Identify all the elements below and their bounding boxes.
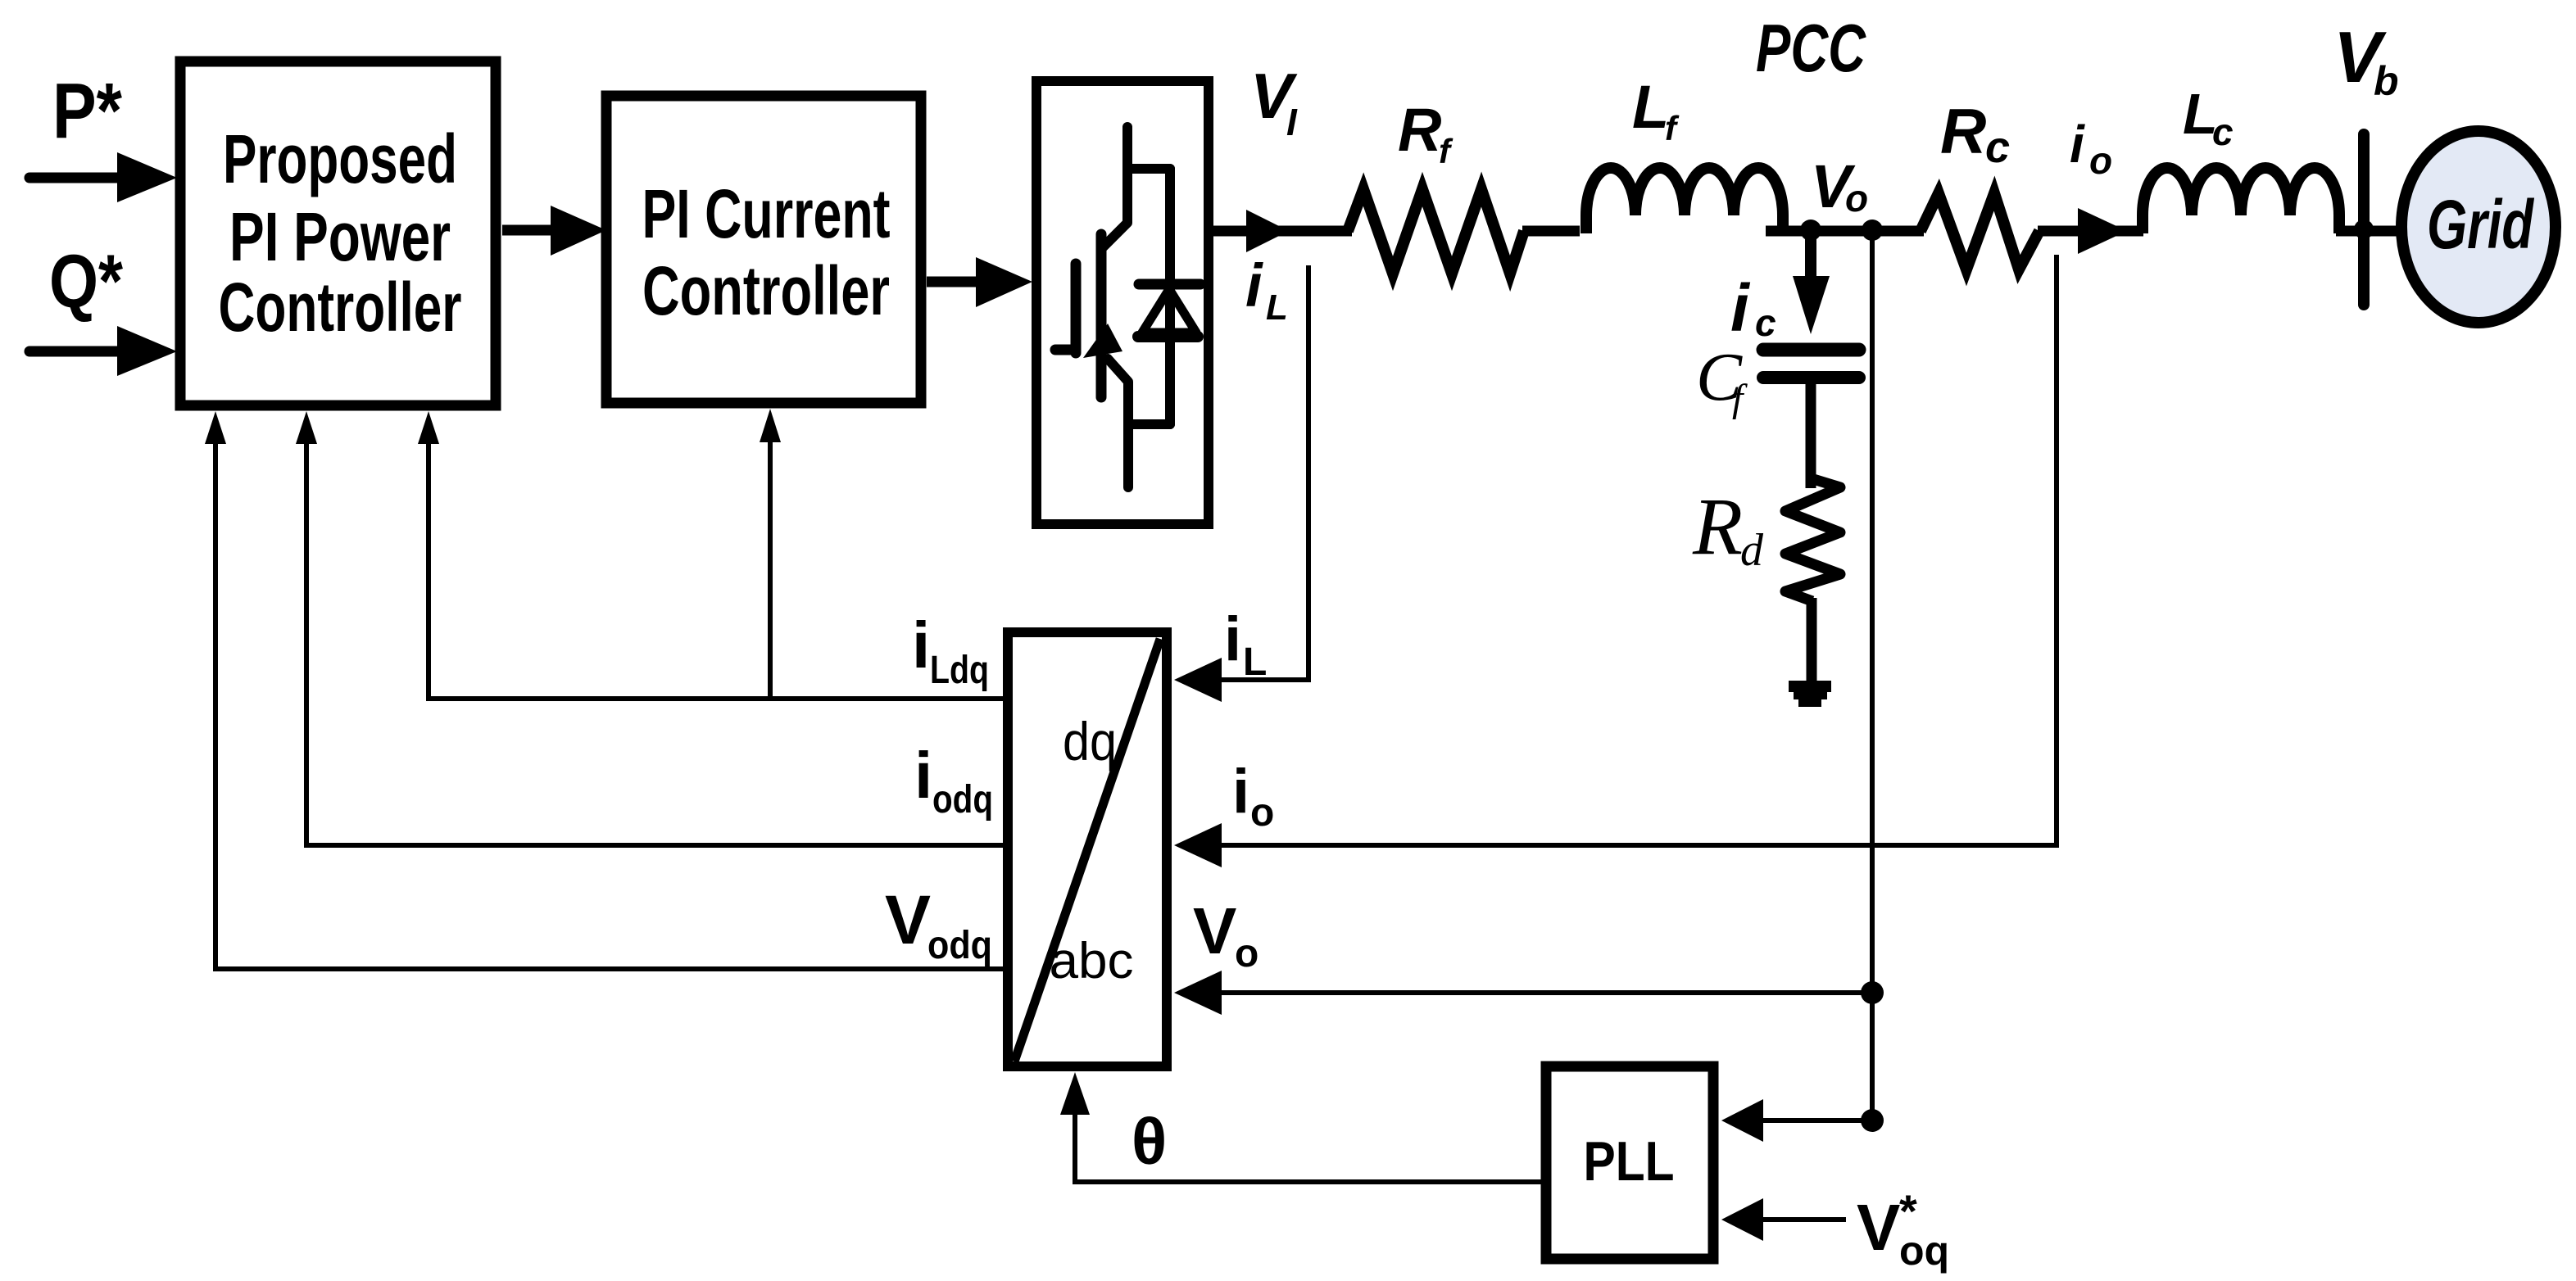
- block PI Current Controller: [606, 96, 921, 403]
- svg-text:V: V: [1857, 1191, 1900, 1264]
- arrowhead inverter output: [1246, 210, 1289, 252]
- wire Vodq output: [215, 966, 1008, 971]
- wire iodq riser: [304, 442, 309, 848]
- svg-text:L: L: [1266, 287, 1288, 328]
- transistor IGBT collector lead: [1102, 127, 1127, 248]
- transistor IGBT emitter arrow: [1083, 324, 1122, 358]
- label iLdq: [912, 609, 989, 692]
- wire iL measurement tap vertical: [1306, 265, 1311, 682]
- label Vo right of dq: [1193, 894, 1259, 975]
- node Grid circle: [2401, 131, 2556, 323]
- svg-text:c: c: [1985, 123, 2010, 172]
- svg-text:R: R: [1692, 481, 1743, 572]
- svg-text:L: L: [1243, 640, 1267, 684]
- svg-text:Ldq: Ldq: [930, 649, 989, 692]
- wire IGBT bottom connector: [1128, 419, 1170, 429]
- node PCC junction dot: [1862, 220, 1883, 241]
- arrowhead into current controller: [551, 206, 606, 256]
- svg-text:PI Current: PI Current: [642, 175, 891, 252]
- block Proposed PI Power Controller: [180, 61, 496, 405]
- wire current controller to inverter: [927, 277, 990, 287]
- inductor Lf: [1586, 168, 1783, 233]
- label Rf: [1398, 96, 1454, 170]
- wire IGBT top connector: [1127, 164, 1170, 174]
- arrowhead io into dq: [1174, 823, 1222, 867]
- label Vodq: [885, 881, 992, 967]
- svg-text:i: i: [912, 609, 930, 681]
- arrowhead Vo into PLL: [1721, 1099, 1763, 1142]
- wire Vodq riser: [213, 442, 218, 971]
- svg-text:i: i: [1245, 251, 1263, 319]
- label io top: [2070, 115, 2112, 182]
- svg-text:odq: odq: [927, 924, 992, 967]
- diode D1 triangle: [1142, 289, 1196, 333]
- wire iLdq output: [429, 696, 1008, 701]
- capacitor Cf bottom plate: [1763, 371, 1859, 384]
- svg-text:i: i: [914, 739, 932, 812]
- svg-text:R: R: [1398, 96, 1441, 164]
- label Vo top: [1811, 152, 1868, 220]
- svg-text:PI Power: PI Power: [229, 198, 451, 275]
- wire io measurement tap vertical: [2054, 255, 2059, 848]
- svg-text:odq: odq: [932, 778, 993, 822]
- svg-text:i: i: [1232, 757, 1249, 826]
- svg-text:PLL: PLL: [1584, 1130, 1675, 1193]
- arrowhead Voq* into PLL: [1721, 1198, 1763, 1241]
- transistor IGBT gate bar: [1071, 264, 1082, 353]
- diode D1 cathode bar: [1139, 279, 1200, 290]
- svg-text:θ: θ: [1132, 1105, 1167, 1178]
- wire theta from PLL: [1075, 1098, 1541, 1182]
- inductor Lc: [2143, 168, 2339, 233]
- label ic: [1730, 271, 1776, 346]
- wire Lc to grid: [2336, 226, 2404, 237]
- wire Rc to Lc with io arrow: [2038, 226, 2143, 237]
- svg-text:PCC: PCC: [1756, 10, 1866, 86]
- wire io into dq block: [1204, 843, 2057, 848]
- arrowhead Vo into dq: [1174, 971, 1222, 1015]
- wire Voq* into PLL: [1762, 1217, 1846, 1222]
- svg-text:c: c: [2212, 111, 2234, 153]
- svg-text:o: o: [1845, 177, 1868, 220]
- label Cf: [1696, 339, 1748, 420]
- svg-text:R: R: [1940, 95, 1986, 167]
- node Vb bus bar: [2358, 134, 2370, 305]
- svg-text:P*: P*: [52, 67, 123, 155]
- label Lc: [2183, 82, 2234, 153]
- svg-text:i: i: [1224, 604, 1241, 674]
- label Vb: [2333, 16, 2399, 104]
- label Voq* reference: [1857, 1185, 1949, 1274]
- label iL right of dq: [1224, 604, 1267, 684]
- label io right of dq: [1232, 757, 1274, 835]
- wire Q* input: [29, 346, 123, 357]
- diode D1 base bar: [1138, 331, 1198, 342]
- resistor Rd: [1785, 478, 1840, 601]
- label Lf: [1632, 73, 1680, 147]
- resistor Rf: [1348, 189, 1524, 274]
- svg-text:abc: abc: [1050, 933, 1134, 989]
- transistor IGBT gate lead: [1055, 345, 1076, 355]
- arrowhead Q* input: [117, 326, 177, 376]
- arrowhead iodq into power controller: [296, 411, 317, 444]
- arrowhead ic downward: [1793, 276, 1830, 334]
- wire iodq output: [306, 843, 1008, 848]
- svg-text:b: b: [2374, 58, 2399, 104]
- wire Cf to Rd: [1806, 384, 1816, 488]
- block PLL: [1546, 1066, 1713, 1259]
- wire power controller to current controller: [502, 225, 560, 236]
- svg-text:o: o: [1235, 932, 1259, 975]
- arrowhead into current controller bottom: [760, 409, 781, 442]
- arrowhead io: [2078, 208, 2127, 254]
- svg-text:o: o: [1250, 791, 1274, 835]
- wire iLdq riser to power controller: [426, 442, 431, 701]
- svg-text:L: L: [1632, 73, 1669, 141]
- wire Rf to Lf: [1522, 226, 1580, 237]
- wire riser to current controller: [768, 442, 773, 699]
- svg-text:Controller: Controller: [642, 252, 890, 329]
- arrowhead P* input: [117, 152, 177, 202]
- node PLL input junction dot: [1861, 1109, 1884, 1132]
- svg-text:I: I: [1286, 101, 1298, 143]
- transistor IGBT body bar: [1096, 234, 1107, 397]
- wire Vo measurement vertical: [1870, 238, 1875, 1120]
- svg-text:V: V: [1193, 894, 1236, 967]
- arrowhead iLdq into power controller: [418, 411, 439, 444]
- block inverter box: [1036, 81, 1209, 524]
- label VI: [1250, 60, 1298, 143]
- wire iL into dq block: [1204, 677, 1308, 682]
- node Vo junction dot: [1800, 220, 1821, 241]
- label Rc: [1940, 95, 2010, 172]
- svg-text:Grid: Grid: [2427, 186, 2534, 263]
- label iL near inverter: [1245, 251, 1288, 328]
- ground symbol: [1789, 681, 1831, 692]
- wire ic branch: [1805, 236, 1816, 287]
- wire inverter output VI: [1213, 226, 1352, 237]
- svg-text:V: V: [885, 881, 931, 958]
- capacitor Cf top plate: [1763, 343, 1859, 357]
- arrowhead theta into dq: [1060, 1072, 1090, 1115]
- wire P* input: [29, 173, 123, 183]
- arrowhead iL into dq: [1174, 658, 1222, 702]
- wire Rd to ground: [1807, 598, 1817, 685]
- svg-text:i: i: [1730, 271, 1751, 346]
- label iodq: [914, 739, 993, 822]
- svg-text:d: d: [1740, 525, 1764, 576]
- wire Lf to PCC node: [1766, 226, 1924, 237]
- diode D1 vertical lead: [1165, 169, 1175, 424]
- block dq/abc transform: [1008, 632, 1167, 1066]
- svg-text:oq: oq: [1899, 1228, 1949, 1274]
- resistor Rc: [1921, 193, 2039, 269]
- arrowhead Vodq into power controller: [205, 411, 226, 444]
- node Vo feedback junction dot: [1861, 981, 1884, 1004]
- svg-text:c: c: [1755, 301, 1776, 344]
- svg-text:Proposed: Proposed: [223, 120, 457, 197]
- label Rd: [1692, 481, 1764, 576]
- svg-text:i: i: [2070, 115, 2085, 174]
- wire Vo into PLL: [1757, 1118, 1872, 1123]
- svg-text:Controller: Controller: [219, 269, 462, 346]
- svg-text:dq: dq: [1063, 711, 1117, 772]
- node bus junction dot: [2354, 220, 2374, 239]
- arrowhead into inverter: [976, 257, 1032, 307]
- wire Vo into dq block: [1204, 990, 1872, 995]
- svg-text:o: o: [2089, 139, 2112, 182]
- svg-text:Q*: Q*: [49, 240, 123, 324]
- transistor IGBT emitter lead: [1108, 359, 1128, 487]
